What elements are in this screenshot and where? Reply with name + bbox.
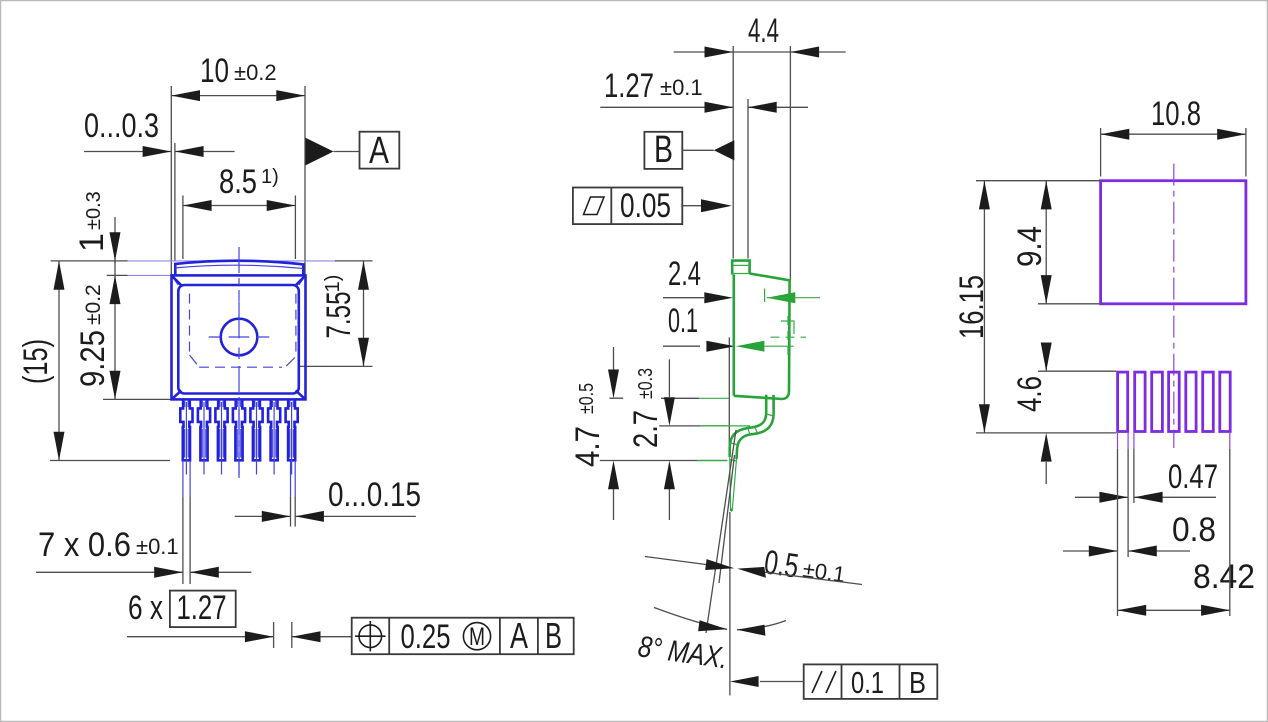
svg-text:±0.2: ±0.2 <box>234 60 277 85</box>
svg-text:A: A <box>369 130 390 172</box>
svg-text:4.4: 4.4 <box>748 12 779 50</box>
svg-text:±0.1: ±0.1 <box>136 534 179 559</box>
lead pad extension lines <box>1118 433 1230 616</box>
svg-text:0.25: 0.25 <box>401 618 451 656</box>
vertical centerline of front view <box>238 247 240 478</box>
svg-text:±0.1: ±0.1 <box>660 75 703 100</box>
8 degree construction lines <box>706 430 736 696</box>
footprint centerline (dash-dot purple) <box>1173 164 1175 448</box>
svg-text:0.05: 0.05 <box>620 187 671 225</box>
datum A symbol with leader and box <box>306 130 400 172</box>
lead pad 2 <box>1135 372 1145 431</box>
svg-text:7.55: 7.55 <box>320 292 358 339</box>
svg-text:B: B <box>654 129 673 171</box>
lead 5 <box>250 400 262 475</box>
svg-text:0.1: 0.1 <box>851 665 884 700</box>
footprint large pad (purple) <box>1101 181 1246 304</box>
svg-text:1.27: 1.27 <box>177 589 227 627</box>
dimension 4.7 ±0.5 (standoff height, rotated) <box>569 347 699 520</box>
svg-text:2.7: 2.7 <box>627 410 665 448</box>
dimension 8.5 1) (tab width) <box>183 163 296 259</box>
package front view: tab (blue) <box>175 261 303 275</box>
dimension 0.1 (green arrows) <box>663 302 794 449</box>
svg-text:9.25: 9.25 <box>74 330 112 387</box>
dimension 0.47 (pad gap) <box>1075 458 1218 503</box>
svg-text:M: M <box>469 623 485 651</box>
svg-text:±0.2: ±0.2 <box>82 284 105 325</box>
lead pad 1 <box>1118 372 1128 431</box>
svg-text:±0.5: ±0.5 <box>576 383 598 414</box>
dimension 4.4 (body thickness, side view) <box>674 12 846 280</box>
svg-text:0...0.15: 0...0.15 <box>328 476 421 514</box>
side view green body: tab <box>732 261 749 275</box>
dimension 9.4 (pad height, rotated) <box>976 181 1101 304</box>
lead pad 3 <box>1152 372 1163 431</box>
lead pad 4 <box>1169 372 1180 431</box>
dimension 0...0.3 (body to tab edge offset) <box>84 107 235 261</box>
dimension 2.7 ±0.3 (lead height, rotated) <box>627 359 750 520</box>
svg-text:1): 1) <box>322 275 344 293</box>
lead 6 <box>268 400 280 475</box>
dimension 2.4 (green arrows) <box>663 255 820 303</box>
dimension 8° MAX. with arc arrows <box>636 608 786 676</box>
svg-text:7 x 0.6: 7 x 0.6 <box>38 526 131 564</box>
feature control frame: position 0.25 (M) A B <box>352 615 574 656</box>
svg-text:16.15: 16.15 <box>953 275 991 339</box>
dimension (15) overall height, rotated <box>17 261 170 461</box>
lead 7 edge extension lines <box>291 461 296 498</box>
svg-text:10: 10 <box>200 52 229 90</box>
feature control frame: parallelism // 0.1 B <box>730 664 937 700</box>
dimension 8.42 (lead pads span) <box>1118 558 1256 616</box>
svg-text:0.5: 0.5 <box>762 543 801 585</box>
datum B symbol with leader and box <box>644 129 734 171</box>
svg-text:9.4: 9.4 <box>1011 226 1049 267</box>
dimension 9.25 ±0.2 (body height, rotated) <box>74 261 171 400</box>
svg-text:B: B <box>909 665 926 700</box>
package front view: body outline (blue) <box>172 275 306 399</box>
pin 1 marker hidden cross (dashed green) <box>771 316 807 358</box>
svg-text:4.6: 4.6 <box>1011 376 1049 412</box>
lead 4 <box>233 400 245 475</box>
svg-text:A: A <box>510 615 528 656</box>
svg-text:0...0.3: 0...0.3 <box>84 107 159 145</box>
dimension 1 ±0.3 (tab step height, rotated) <box>51 191 373 275</box>
svg-text:1): 1) <box>261 166 279 188</box>
side view green body: molded body outline <box>734 274 790 400</box>
svg-text:±0.3: ±0.3 <box>83 191 105 230</box>
svg-text:8.5: 8.5 <box>219 163 257 201</box>
hole centerlines (crosshair) <box>209 301 270 359</box>
svg-text:0.47: 0.47 <box>1168 458 1218 496</box>
svg-text:2.4: 2.4 <box>668 255 701 293</box>
dimension 6 x 1.27 (lead pitch, boxed) <box>127 589 352 648</box>
svg-text:8.42: 8.42 <box>1193 558 1255 596</box>
svg-text:1.27: 1.27 <box>604 67 654 105</box>
svg-text:0.1: 0.1 <box>668 302 698 340</box>
svg-text:1: 1 <box>73 233 111 252</box>
side view lead with bend <box>699 395 774 511</box>
lead pad 6 <box>1203 372 1214 431</box>
svg-text:6 x: 6 x <box>128 589 163 627</box>
lead 2 <box>198 400 210 475</box>
hidden die pad outline (dashed) <box>190 294 296 368</box>
lead 3 <box>215 400 227 475</box>
dimension 0...0.15 (lead tip offset) <box>235 476 421 527</box>
dimension 16.15 (overall footprint height, rotated) <box>953 181 1116 433</box>
dimension 4.6 (lead pad height, rotated) <box>1011 343 1116 485</box>
lead 1 <box>180 400 192 475</box>
dimension 7.55 1) (pad height, rotated) <box>300 261 373 366</box>
lead 1 edge extension lines <box>183 461 190 498</box>
dimension 10 ±0.2 (package width, front view) <box>171 52 305 275</box>
dimension 7 x 0.6 ±0.1 (lead width) <box>36 526 251 578</box>
dimension 0.5 ±0.1 (lead thickness) <box>645 543 862 592</box>
svg-text:0.8: 0.8 <box>1172 511 1216 549</box>
svg-text:10.8: 10.8 <box>1151 95 1201 133</box>
dimension 0.8 (pad width) <box>1063 511 1216 557</box>
dimension 10.8 (pad width) <box>1101 95 1246 177</box>
svg-text:(15): (15) <box>17 339 55 384</box>
lead pad 7 <box>1220 372 1230 431</box>
lead pad 5 <box>1186 372 1196 431</box>
dimension 1.27 ±0.1 (tab thickness) <box>600 67 808 259</box>
lead 7 <box>286 400 298 475</box>
feature control frame: flatness 0.05 <box>573 187 732 225</box>
svg-text:B: B <box>545 615 562 656</box>
mounting hole circle <box>221 319 258 356</box>
svg-text:±0.3: ±0.3 <box>635 368 657 399</box>
